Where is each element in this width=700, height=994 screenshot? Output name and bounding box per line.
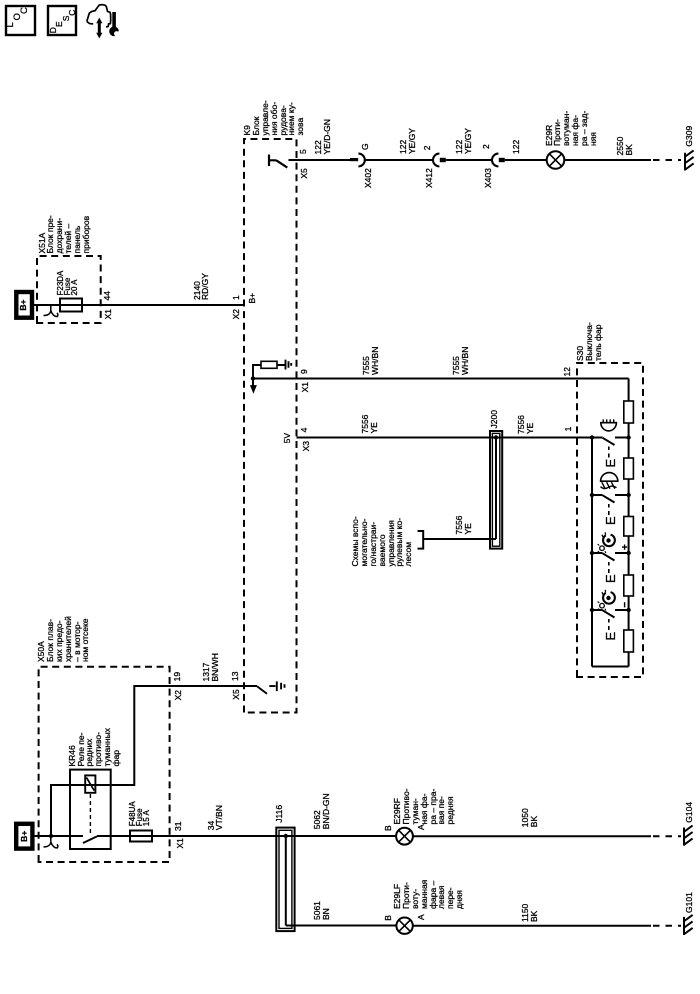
J200 splice pack bbox=[490, 431, 502, 549]
wire label 2550 BK bbox=[616, 137, 634, 156]
ground G309 bbox=[685, 150, 694, 170]
ground G101 label bbox=[685, 892, 694, 913]
fuse F23DA label bbox=[57, 271, 78, 296]
S30 headlamp switch dashed box bbox=[577, 363, 643, 677]
junction dot in J200 bbox=[494, 435, 498, 439]
X51A title bbox=[38, 215, 91, 253]
plus mark bbox=[622, 545, 627, 550]
pin 12 bbox=[563, 367, 572, 376]
lamp E29LF left front fog bbox=[396, 918, 412, 934]
E29LF title bbox=[393, 880, 463, 909]
S30 switch contact 1 (rear fog) bbox=[592, 438, 629, 446]
steering wheel controls note bbox=[351, 516, 413, 566]
S30 switch contact 4 (leveling -) bbox=[592, 610, 629, 618]
LOC letters bbox=[7, 22, 16, 27]
ground G101 bbox=[684, 915, 693, 935]
relay KR46 box bbox=[70, 770, 111, 849]
icon front fog lamp (switch 2) bbox=[601, 473, 618, 482]
connector X1 of X50A bbox=[176, 838, 185, 848]
K9 internal resistor and ground at X1 pin 9 bbox=[251, 376, 255, 380]
pin 31 bbox=[174, 822, 183, 831]
wire to X412 bbox=[365, 159, 433, 161]
linkage letter E s4 bbox=[603, 632, 618, 641]
wire label 122 YE/D-GN bbox=[314, 119, 332, 154]
pin 1 bbox=[232, 295, 241, 300]
wire label 7555 WH/BN lower bbox=[452, 347, 470, 375]
wire label 1050 BK bbox=[521, 808, 539, 827]
pin 1 of S30 bbox=[564, 427, 573, 432]
ground G104 bbox=[684, 826, 693, 846]
S30 resistor chain from pin 12 bbox=[592, 379, 629, 667]
pin B of E29RF bbox=[384, 825, 393, 831]
S30 switch contact 2 (front fog) bbox=[592, 495, 629, 503]
ground G309 label bbox=[685, 126, 694, 147]
ground G104 label bbox=[685, 802, 694, 823]
wire label 7556 YE lower bbox=[517, 415, 535, 434]
icon headlamp leveling (switch 3) bbox=[603, 535, 615, 547]
connector X2 of K9 bbox=[232, 309, 241, 319]
K9 internal arrow (circuit continues) bbox=[252, 379, 254, 386]
car adjust icon with wrench (drawn in portrait coords, pre-rotated) bbox=[87, 5, 123, 39]
wire label 7556 YE upper bbox=[361, 415, 379, 434]
X51A fuse block dashed box bbox=[37, 256, 101, 323]
relay KR46 contact blade bbox=[83, 836, 97, 843]
fuse F23DA bbox=[60, 299, 82, 312]
wire label 5061 BN bbox=[313, 901, 331, 920]
DESC letters bbox=[49, 27, 58, 33]
linkage letter E s3 bbox=[603, 574, 618, 583]
E29RF title bbox=[393, 789, 455, 825]
wire label 7555 WH/BN upper bbox=[362, 347, 380, 375]
wire label 1317 BN/WH bbox=[202, 653, 220, 681]
resistor R3 bbox=[624, 517, 634, 537]
relay KR46 coil bbox=[85, 775, 95, 792]
pin 13 bbox=[231, 672, 240, 681]
bus curl inside X50A bbox=[44, 836, 58, 848]
fuse F48UA label bbox=[129, 801, 150, 826]
pin A of E29RF bbox=[417, 824, 426, 830]
wire 7555 WH/BN K9 X1 pin9 to S30 pin 12 bbox=[253, 378, 629, 380]
connector X412 label bbox=[425, 168, 434, 188]
connector X2 of X50A bbox=[174, 690, 183, 700]
wire label 2140 RD/GY bbox=[193, 273, 211, 300]
lamp E29RF right front fog bbox=[396, 828, 413, 845]
wire to X403 bbox=[446, 159, 492, 161]
K9 title bbox=[243, 100, 305, 135]
X50A title bbox=[37, 616, 90, 662]
wire 5061 BN to lamp E29LF bbox=[295, 925, 397, 927]
wire 1050 BK to G104 bbox=[413, 835, 651, 837]
connector X5 of K9 top bbox=[232, 689, 241, 699]
B+ label 2 bbox=[20, 831, 29, 842]
wire 1317 BN/WH from X50A X2 pin19 to K9 X5 pin13 (incl. relay coil return) bbox=[96, 686, 258, 785]
icon rear fog lamp (switch 1) bbox=[601, 423, 617, 431]
wire 5062 BN/D-GN to lamp E29RF bbox=[295, 835, 397, 837]
fuse F48UA bbox=[130, 831, 152, 842]
wire label 122 bbox=[512, 140, 521, 154]
branch 7556 YE to steering wheel controls bbox=[423, 438, 496, 540]
connector X3 of K9 bbox=[302, 441, 311, 451]
B+ net inside K9 bbox=[248, 293, 257, 304]
wire 2550 BK to G309 bbox=[564, 159, 651, 161]
wire label 34 VT/BN bbox=[207, 805, 225, 830]
connector X402 bbox=[350, 158, 358, 161]
B+1 box bbox=[16, 292, 32, 318]
pin 19 bbox=[173, 672, 182, 681]
LOC box bbox=[6, 6, 35, 35]
X50A underhood fuse block dashed box bbox=[39, 667, 170, 862]
wire 7556 YE K9 X3 pin4 through J200 to S30 pin1 bbox=[297, 437, 593, 439]
B+ label 1 bbox=[19, 300, 28, 311]
minus mark bbox=[624, 602, 626, 607]
splice J116 label bbox=[275, 805, 284, 823]
pin B of E29LF bbox=[384, 915, 393, 921]
E29R title bbox=[545, 111, 598, 146]
wire B+1 to X51A to K9 X2 bbox=[34, 304, 244, 306]
wire label 122 YE/GY bbox=[455, 128, 473, 154]
KR46 title bbox=[68, 728, 121, 766]
connector X403 label bbox=[484, 168, 493, 188]
resistor R4 bbox=[624, 575, 634, 596]
wire X5 pin5 down to X402 bbox=[289, 159, 351, 161]
off-page bracket bbox=[418, 531, 424, 549]
resistor R1 bbox=[624, 401, 634, 423]
B+2 wire into X50A and relay bbox=[35, 835, 83, 837]
wire label 122 YE/GY bbox=[399, 128, 417, 154]
linkage letter E s1 bbox=[603, 459, 618, 468]
K9 internal switch at X5 pin 5 bbox=[269, 155, 287, 168]
resistor R2 bbox=[624, 458, 634, 479]
branch to relay coil bbox=[51, 785, 96, 836]
B+2 box bbox=[16, 824, 32, 849]
J116 internal bus wires bbox=[276, 836, 294, 926]
relay output through fuse F48UA down to J116 bbox=[97, 835, 276, 837]
pin 4 bbox=[300, 428, 309, 433]
pin 2 bbox=[423, 145, 432, 150]
S30 switch contact 3 (leveling +) bbox=[592, 553, 629, 561]
bus curl inside X51A bbox=[44, 305, 58, 316]
pin 5 bbox=[299, 149, 308, 154]
K9 internal switch-to-ground at X5 pin 13 bbox=[257, 681, 284, 693]
pin G bbox=[361, 143, 370, 150]
resistor R5 bbox=[624, 630, 634, 652]
icon headlamp leveling (switch 4) bbox=[603, 592, 615, 604]
pin 44 bbox=[103, 291, 112, 300]
connector X403 bbox=[492, 154, 498, 167]
connector X1 of X51A bbox=[104, 309, 113, 319]
wire label 5062 BN/D-GN bbox=[313, 793, 331, 829]
junction dot B+ branch bbox=[49, 834, 53, 838]
connector X5 of K9 bbox=[300, 168, 309, 178]
connector X1 of K9 bbox=[301, 382, 310, 392]
J116 splice pack bbox=[276, 828, 294, 932]
DESC box bbox=[48, 6, 76, 35]
S30 title bbox=[576, 322, 602, 361]
K9 body control module dashed box bbox=[244, 139, 297, 713]
lamp E29R rear fog bbox=[547, 151, 565, 169]
pin 2 bbox=[482, 144, 491, 149]
pin A of E29LF bbox=[417, 914, 426, 920]
relay mechanical linkage bbox=[89, 794, 91, 834]
splice J200 label bbox=[490, 410, 499, 428]
5V net inside K9 bbox=[283, 433, 292, 443]
pin 9 bbox=[300, 369, 309, 374]
linkage letter E s2 bbox=[603, 516, 618, 525]
wire to lamp E29R bbox=[505, 159, 547, 161]
wire label 1150 BK bbox=[521, 904, 539, 922]
connector X402 label bbox=[364, 168, 373, 188]
wire label 7556 YE branch bbox=[455, 516, 473, 535]
wire 1150 BK to G101 bbox=[413, 925, 651, 927]
junction dot in J116 bbox=[284, 834, 288, 838]
connector X412 bbox=[433, 154, 439, 167]
